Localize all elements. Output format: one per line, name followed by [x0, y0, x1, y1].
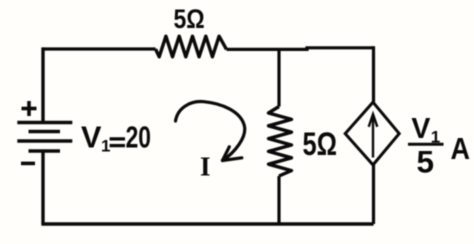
svg-text:1: 1 [101, 136, 110, 155]
battery V1 minus sign [21, 162, 35, 166]
wire: right vertical upper [372, 46, 375, 102]
dependent current source U1 (diamond) [345, 102, 399, 165]
wire: right vertical lower [372, 165, 375, 224]
resistor R2 5ohm (middle, vertical zigzag) [269, 107, 292, 177]
svg-text:5: 5 [417, 144, 435, 180]
svg-text:A: A [451, 131, 471, 166]
svg-text:V: V [81, 120, 102, 155]
wire: middle branch lower [277, 176, 280, 224]
battery V1 plus sign [22, 101, 37, 116]
svg-text:I: I [200, 151, 211, 181]
resistor R1 5ohm (top, zigzag) [156, 36, 227, 57]
wire: top-right horizontal segment [227, 48, 374, 50]
fraction bar [408, 143, 444, 146]
svg-text:5Ω: 5Ω [303, 126, 338, 162]
equals sign of V1=20 [110, 139, 125, 146]
battery V1 plates [17, 123, 72, 152]
wire: top-left horizontal segment [43, 47, 156, 50]
svg-text:20: 20 [126, 120, 151, 155]
wire: bottom horizontal [41, 222, 373, 225]
wire: left vertical lower [41, 151, 44, 224]
current source arrow (up) [369, 114, 378, 157]
wire: middle branch upper [277, 48, 280, 107]
mesh current arrow I (clockwise arc) [176, 102, 245, 161]
svg-text:V: V [411, 113, 430, 145]
wire: left vertical upper [41, 47, 44, 122]
svg-text:5Ω: 5Ω [174, 4, 205, 34]
